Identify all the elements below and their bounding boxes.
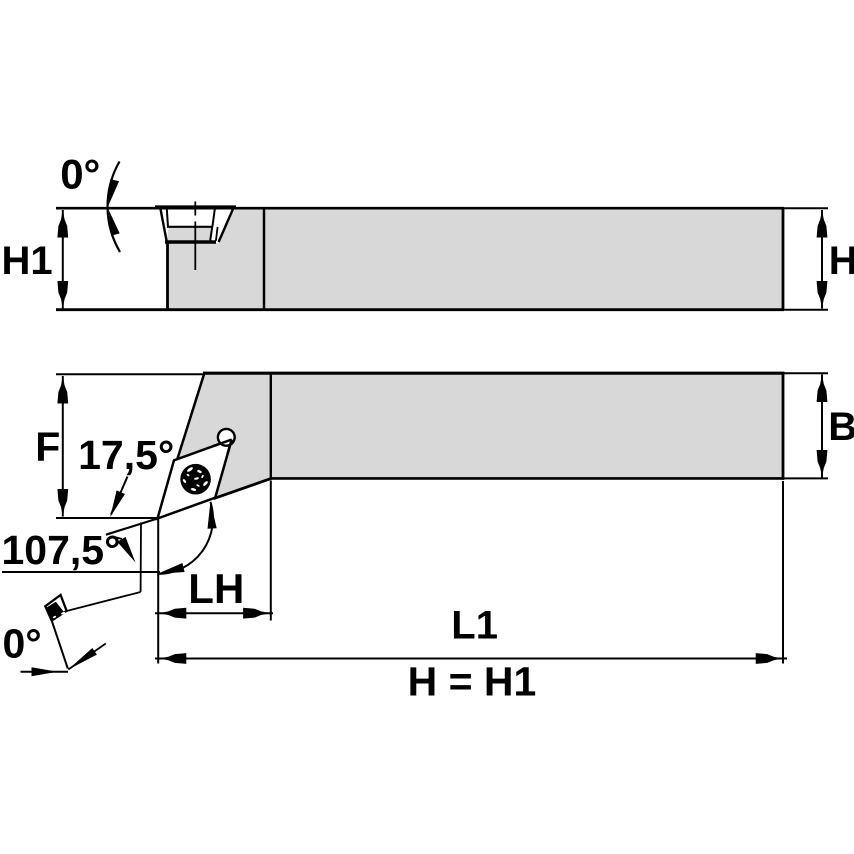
- tip horizontal reference line lower: [2, 571, 160, 573]
- dimension H1 line: [62, 210, 64, 309]
- dimension L1 line: [155, 658, 787, 660]
- screw centerline upper segment: [194, 202, 196, 216]
- H top arrowhead: [817, 210, 828, 238]
- svg-text:H1: H1: [2, 239, 53, 283]
- shank bottom edge (plan view): [270, 477, 784, 480]
- arc upper arrowhead: [208, 502, 217, 529]
- H1 bottom arrowhead: [57, 281, 68, 309]
- insert nose radius circle: [218, 429, 235, 446]
- insert edge over nose circle (right): [228, 440, 232, 455]
- L1 right extension line: [782, 481, 784, 664]
- head bottom slant edge (plan view): [214, 478, 272, 498]
- dimension B line: [821, 375, 823, 478]
- dimension LH line: [155, 612, 273, 614]
- insert cross-section square: [45, 595, 66, 621]
- dimension F top extension line: [56, 373, 204, 375]
- inset leader vertical segment: [140, 523, 142, 593]
- 0 deg inset horizontal arrowhead: [32, 667, 58, 676]
- cutting edge extension line: [106, 519, 158, 535]
- head/shank boundary line (side view): [263, 209, 266, 310]
- 17.5 deg leader arrowhead: [110, 490, 125, 517]
- LH/L1 left extension line: [157, 519, 159, 664]
- body bottom edge (side view): [56, 308, 784, 311]
- insert diamond DCMT: [158, 440, 232, 519]
- svg-text:107,5°: 107,5°: [2, 527, 121, 573]
- F top arrowhead: [57, 376, 68, 404]
- svg-text:H: H: [829, 239, 854, 283]
- dimension B bottom extension line: [783, 477, 828, 479]
- 0 degree lower arrowhead: [109, 210, 120, 236]
- screw head bottom horizontal line: [167, 226, 213, 228]
- pocket bottom thick line: [165, 240, 216, 243]
- L1 right arrowhead: [756, 653, 784, 664]
- dimension B top extension line: [783, 372, 828, 374]
- body top edge (plan view): [203, 372, 785, 375]
- screw head speckles: [182, 466, 208, 491]
- screw head inner right slant: [212, 209, 214, 227]
- B top arrowhead: [817, 375, 828, 403]
- screw centerline lower segment: [194, 222, 196, 271]
- F bottom arrowhead: [57, 489, 68, 517]
- svg-text:H = H1: H = H1: [408, 658, 537, 704]
- insert edge over nose circle (top-left): [213, 440, 232, 447]
- insert pocket thick top bar (side view): [155, 205, 236, 209]
- 0 deg inset slant arrowhead: [68, 648, 97, 670]
- head left slant edge 17.5 deg (plan view): [177, 373, 204, 460]
- inset leader slant segment: [67, 592, 141, 611]
- svg-text:F: F: [35, 424, 60, 470]
- pocket outer right slant: [219, 209, 233, 242]
- clamp screw head: [180, 464, 211, 495]
- cross-section hatch band: [46, 602, 64, 620]
- LH right extension line: [270, 481, 272, 621]
- svg-text:B: B: [828, 405, 854, 449]
- screw body right slant: [210, 227, 212, 241]
- LH right arrowhead: [243, 608, 271, 619]
- L1 left arrowhead: [159, 653, 187, 664]
- 107.5 deg angle arc: [158, 502, 213, 574]
- tip horizontal reference line upper: [56, 517, 159, 519]
- body top edge (side view): [56, 207, 784, 210]
- 0 degree upper arrowhead: [108, 179, 119, 206]
- body gray fill (plan view head and shank): [158, 372, 785, 519]
- B bottom arrowhead: [817, 450, 828, 478]
- countersink right inner slant: [216, 227, 218, 241]
- H bottom arrowhead: [817, 281, 828, 309]
- 0 deg inset slant arrow line: [68, 644, 106, 670]
- pocket left vertical edge of gray (side view): [166, 242, 169, 310]
- svg-text:17,5°: 17,5°: [78, 432, 174, 478]
- H1 top arrowhead: [57, 210, 68, 238]
- body right edge (side view): [782, 208, 785, 311]
- svg-text:LH: LH: [188, 565, 244, 612]
- svg-text:0°: 0°: [3, 620, 42, 666]
- svg-text:0°: 0°: [60, 151, 100, 198]
- 107.5 deg leader arrowhead: [117, 537, 135, 563]
- svg-text:L1: L1: [451, 604, 498, 648]
- 0 degree rake arc (side view): [108, 162, 120, 253]
- screw head inner left line: [167, 209, 168, 227]
- shank gray fill (side view): [168, 210, 784, 309]
- dimension H line: [821, 210, 823, 309]
- pocket outer left slant: [161, 209, 167, 242]
- insert front face line: [52, 621, 68, 669]
- head/shank boundary line (plan view): [270, 374, 272, 479]
- screw seat gray band (side view pocket): [167, 228, 212, 241]
- dimension H top extension line: [783, 207, 828, 209]
- LH left arrowhead: [159, 608, 187, 619]
- body right edge (plan view): [782, 372, 785, 480]
- arc lower arrowhead: [158, 563, 185, 574]
- dimension F line: [62, 376, 64, 517]
- 107.5 deg leader line: [113, 537, 123, 540]
- 17.5 deg leader line: [111, 477, 128, 515]
- dimension H bottom extension line: [783, 309, 828, 311]
- 0 deg inset horizontal line: [21, 671, 69, 673]
